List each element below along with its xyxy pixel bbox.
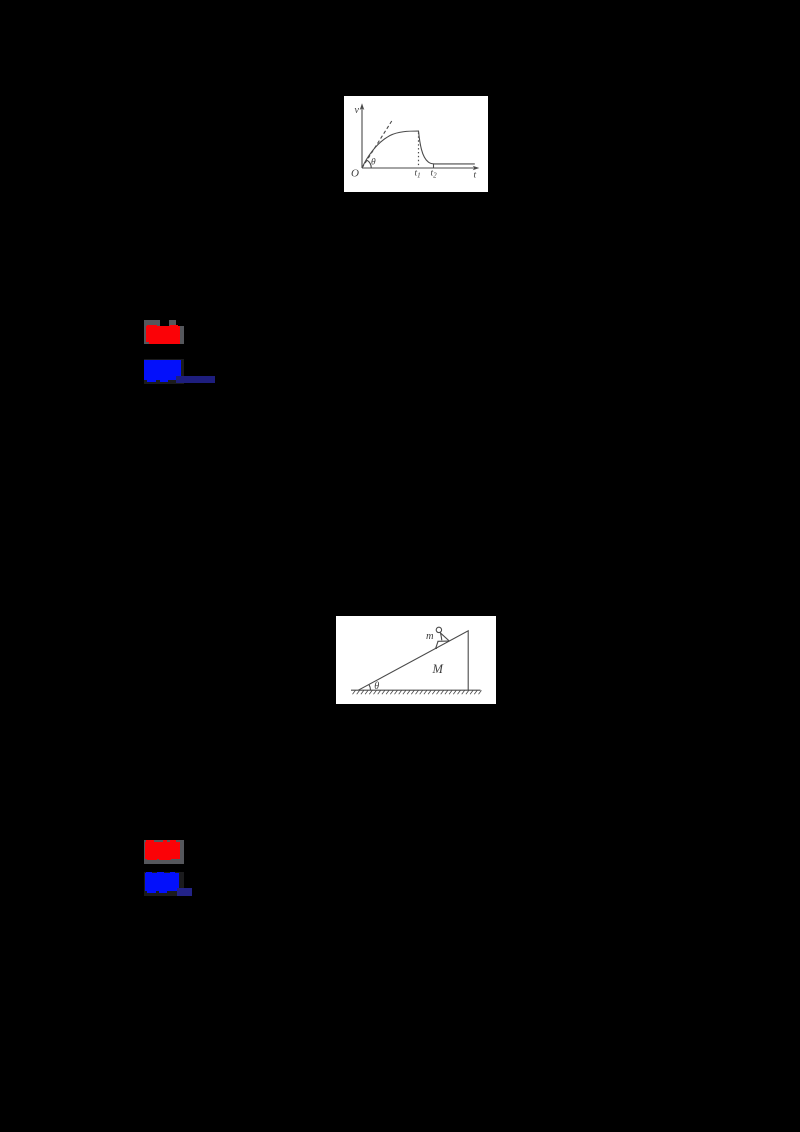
svg-text:θ: θ [371, 158, 376, 168]
svg-text:t: t [474, 171, 477, 181]
svg-text:θ: θ [374, 681, 379, 692]
svg-text:O: O [351, 168, 359, 180]
svg-text:m: m [426, 631, 434, 642]
svg-text:t2: t2 [431, 169, 438, 180]
svg-text:t1: t1 [415, 169, 421, 180]
svg-text:v: v [355, 105, 360, 116]
svg-text:M: M [432, 662, 444, 676]
